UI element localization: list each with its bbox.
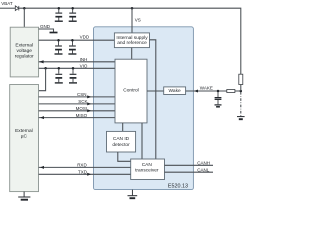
capacitor C6: [69, 68, 77, 83]
wire VIO: [39, 67, 115, 69]
node WAKE cap junction: [217, 90, 220, 93]
wire CANH: [165, 164, 214, 166]
svg-text:RXD: RXD: [77, 163, 87, 168]
IC block E520.13: [94, 27, 194, 190]
wire wake to WAKE pin: [186, 90, 241, 92]
wire supply to control: [131, 48, 133, 60]
node VIO junction: [44, 67, 47, 70]
node cap C6 junction: [72, 67, 75, 70]
wire CSN: [39, 96, 115, 98]
wire VS: [131, 8, 133, 33]
svg-text:transceiver: transceiver: [135, 168, 159, 174]
svg-text:WAKE: WAKE: [200, 85, 213, 90]
svg-text:VS: VS: [135, 17, 141, 22]
wire optional (dash-dot): [240, 92, 242, 116]
node cap C5 junction: [58, 67, 61, 70]
wire supply to transceiver: [150, 40, 156, 159]
CAN transceiver box: [131, 159, 165, 180]
capacitor C4: [68, 40, 76, 54]
resistor R1 (pull-up to VBAT): [239, 74, 243, 84]
capacitor C5: [55, 68, 63, 83]
svg-text:VIO: VIO: [80, 64, 88, 69]
ground (block bottom): [128, 190, 138, 199]
svg-text:voltage: voltage: [16, 48, 32, 54]
wire MISO: [39, 117, 115, 119]
svg-text:TXD: TXD: [78, 170, 88, 175]
svg-text:External: External: [15, 42, 33, 48]
External voltage regulator U2: [10, 27, 38, 77]
svg-text:MOSI: MOSI: [76, 106, 88, 111]
capacitor C2: [69, 8, 77, 21]
wire INH: [39, 61, 115, 63]
svg-text:and reference: and reference: [117, 40, 147, 46]
svg-text:µC: µC: [21, 134, 28, 140]
svg-text:regulator: regulator: [15, 53, 34, 59]
wire VDD: [39, 39, 115, 41]
arrow MISO (into microcontroller): [40, 116, 44, 119]
svg-text:CAN: CAN: [142, 162, 153, 168]
wire MOSI: [39, 110, 115, 112]
resistor R2 (series WAKE): [227, 90, 235, 93]
ground (WAKE cap): [215, 105, 222, 107]
wire CANL: [165, 171, 214, 173]
svg-text:VBAT: VBAT: [1, 1, 13, 6]
svg-text:CANH: CANH: [197, 160, 210, 165]
wire TXD: [39, 173, 131, 175]
wire RXD: [39, 166, 131, 168]
node cap C1 junction: [58, 7, 61, 10]
wire control to transceiver: [141, 123, 143, 159]
svg-text:External: External: [15, 128, 33, 134]
node VS junction: [131, 7, 134, 10]
ground (microcontroller): [18, 192, 30, 200]
wire control to wake: [147, 90, 164, 92]
svg-text:GND: GND: [40, 24, 51, 29]
arrow RXD (into microcontroller): [40, 166, 44, 169]
arrow SCK: [87, 102, 91, 105]
svg-text:CANL: CANL: [197, 167, 210, 172]
External microcontroller U3: [10, 85, 39, 192]
wire VBAT to right edge: [19, 8, 241, 74]
capacitor C7: [215, 91, 222, 104]
wire resistor to junction: [240, 85, 242, 92]
arrow MOSI: [87, 109, 91, 112]
diode D1: [15, 6, 18, 11]
arrow CSN: [87, 95, 91, 98]
svg-text:SCK: SCK: [78, 99, 87, 104]
wire SCK: [39, 103, 115, 105]
svg-text:MISO: MISO: [76, 113, 88, 118]
svg-text:E520.13: E520.13: [168, 183, 188, 189]
wire VBAT: [0, 7, 15, 9]
node junction to regulator: [23, 7, 26, 10]
svg-text:Control: Control: [123, 87, 138, 93]
ground (right): [237, 117, 245, 120]
arrow INH (into regulator): [39, 60, 44, 63]
control box: [115, 59, 147, 123]
wire detector to transceiver: [118, 152, 131, 161]
svg-text:CSN: CSN: [77, 92, 87, 97]
svg-text:INH: INH: [80, 57, 88, 62]
node cap C4 junction: [71, 39, 74, 42]
ground (regulator): [50, 32, 58, 34]
capacitor C1: [55, 8, 63, 21]
internal supply and reference box: [114, 33, 149, 48]
node right junction: [240, 90, 243, 93]
svg-text:detector: detector: [112, 142, 130, 148]
capacitor C3: [55, 40, 63, 54]
svg-text:VDD: VDD: [80, 35, 90, 40]
node cap C3 junction: [57, 39, 60, 42]
arrow TXD: [87, 173, 91, 176]
wire VIO to microcontroller: [39, 68, 46, 90]
wire to regulator: [23, 8, 25, 27]
wire control to CAN ID detector: [122, 123, 124, 131]
arrow WAKE (into block): [194, 90, 198, 93]
wire GND: [39, 29, 54, 32]
svg-text:Wake: Wake: [169, 88, 181, 94]
CAN ID detector box: [107, 131, 136, 152]
svg-text:CAN ID: CAN ID: [113, 136, 130, 142]
wake box: [164, 87, 186, 95]
node cap C2 junction: [71, 7, 74, 10]
